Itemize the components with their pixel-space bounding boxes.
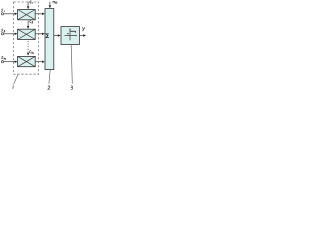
label n0 [53,1,57,3]
wire M2 to summer [35,33,43,35]
filter icon origin mark [67,33,68,34]
mixer M1 [18,10,36,20]
carrier arrow c1 [27,2,29,7]
callout 1 [12,86,15,89]
dashed group box [14,2,39,74]
arrowhead input 1 [15,13,18,15]
arrowhead input N [15,61,18,63]
wire MN to summer [35,61,43,63]
label c2 [30,20,33,23]
label y [82,27,85,31]
filter icon response step [70,31,76,33]
label sigma [46,34,49,38]
arrowhead input 2 [15,33,18,35]
node s2 terminal [1,33,3,35]
carrier arrow c2 [27,21,29,27]
label sN [1,56,5,59]
filter icon vertical axis [69,29,71,41]
wire input 1 [4,13,16,15]
filter U2 [61,27,79,45]
node sN terminal [1,61,3,63]
filter icon horizontal axis [65,35,77,37]
noise arrow [49,2,51,6]
label c1 [30,1,33,4]
wire input N [4,61,16,63]
output wire [79,35,84,37]
mixer M2 [18,29,36,39]
wire input 2 [4,33,16,35]
label cN [30,51,34,54]
label s1 [1,9,4,12]
leader line to summer [49,70,50,84]
mixer MN [18,56,36,66]
callout 2 [48,86,50,89]
summer U1 [45,9,54,70]
node s1 terminal [1,13,3,15]
ellipsis dotted continuation [27,41,29,52]
callout 3 [71,86,73,90]
wire summer to filter [54,35,59,37]
label s2 [1,29,5,32]
leader line to filter [71,45,72,84]
carrier arrow cN [27,53,29,56]
leader line to dashed box [14,74,18,84]
wire M1 to summer [35,13,43,15]
